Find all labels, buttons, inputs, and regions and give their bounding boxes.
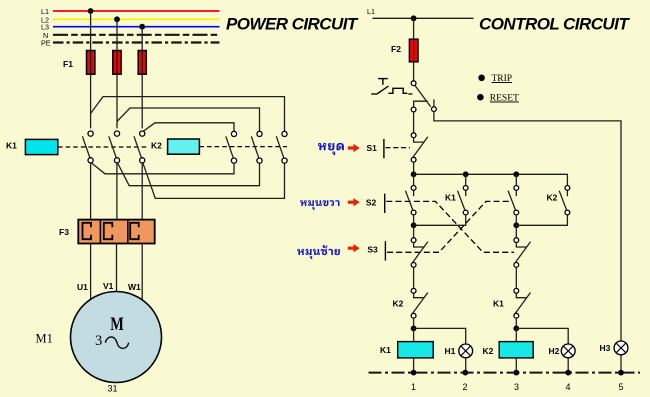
wire L1 to fuse F2 xyxy=(413,18,415,81)
svg-text:L1: L1 xyxy=(367,7,375,16)
contactor K1 coil xyxy=(25,139,57,154)
contactor K2 NC interlock contact xyxy=(411,288,428,318)
wire H1 to N xyxy=(465,358,467,373)
overload F3 heater 2 xyxy=(104,223,113,239)
terminal node 4 xyxy=(565,370,571,376)
linkage S1 dashed xyxy=(386,147,411,149)
svg-text:S1: S1 xyxy=(367,143,378,153)
pushbutton S2 NO contact xyxy=(405,186,416,215)
svg-text:K1: K1 xyxy=(6,141,17,151)
node rail junction 3 xyxy=(513,171,519,177)
wire L2 drop to fuse xyxy=(116,19,118,128)
wire K2 NC to coil junction xyxy=(413,318,415,328)
fuse F2 xyxy=(409,39,418,62)
wire junction to K1 coil xyxy=(413,328,415,341)
wire rail to K1 aux xyxy=(465,174,467,185)
svg-text:1: 1 xyxy=(411,382,416,392)
contactor K1 main contact 1 xyxy=(82,131,93,163)
svg-text:PE: PE xyxy=(41,38,51,47)
linkage K1 dashed xyxy=(58,146,149,148)
node tap L1 xyxy=(88,8,94,14)
terminal node 2 xyxy=(462,370,468,376)
node K1 coil junction xyxy=(411,326,417,332)
wire to lamp H1 xyxy=(414,328,466,343)
pushbutton S2 NC contact (K2 branch) xyxy=(514,238,531,268)
svg-text:F3: F3 xyxy=(59,227,69,237)
svg-text:K1: K1 xyxy=(445,193,456,203)
wire control rail xyxy=(414,174,568,185)
node K1 branch junction xyxy=(411,222,417,228)
svg-text:K1: K1 xyxy=(380,345,391,355)
wire K2 aux join xyxy=(516,215,567,225)
label stop (Thai) xyxy=(318,143,344,155)
svg-text:K1: K1 xyxy=(493,299,504,309)
svg-text:K2: K2 xyxy=(547,193,558,203)
overload relay F3 body xyxy=(78,220,154,244)
node K2 branch junction xyxy=(513,222,519,228)
contactor K1 NC interlock contact xyxy=(514,288,531,318)
node tap L2 xyxy=(114,16,120,22)
wire through F2 xyxy=(413,39,415,62)
wire K1 coil to N xyxy=(413,358,415,373)
contactor K2 main contact 3 xyxy=(276,131,287,163)
node K2 coil junction xyxy=(513,326,519,332)
wire H3 to N xyxy=(620,355,622,373)
wire phase1 branch to K2 contact 3 xyxy=(91,97,285,132)
legend TRIP bullet xyxy=(478,75,485,82)
bus L3 xyxy=(53,26,220,28)
lamp H1 xyxy=(459,344,473,358)
node tap L3 xyxy=(139,24,145,30)
wire S2 NC to K1 NC xyxy=(515,267,517,288)
wire phase2 contacts to F3 xyxy=(116,163,118,220)
lamp H3 xyxy=(614,341,628,355)
overload F3 heater 1 xyxy=(83,223,92,239)
wire through F1 poles xyxy=(91,51,143,75)
wire K1 NC to coil junction xyxy=(515,318,517,328)
wire S3 NC to K2 NC xyxy=(413,267,415,288)
overload trip contact F3 xyxy=(411,81,436,112)
wire K2 coil to N xyxy=(515,358,517,373)
arrow turn left xyxy=(348,244,360,252)
fuse F1 pole 2 xyxy=(113,51,121,75)
node rail junction 1 xyxy=(411,171,417,177)
pushbutton S2 actuator xyxy=(384,194,386,213)
svg-text:CONTROL CIRCUIT: CONTROL CIRCUIT xyxy=(479,15,630,34)
wire K2 contact2 output join xyxy=(118,163,260,186)
bus N xyxy=(53,34,220,36)
svg-text:S3: S3 xyxy=(367,245,378,255)
motor sine symbol xyxy=(105,337,128,349)
contactor K1 main contact 2 xyxy=(109,131,120,163)
pushbutton S1 actuator xyxy=(383,139,385,158)
svg-text:S2: S2 xyxy=(366,198,377,208)
svg-text:V1: V1 xyxy=(103,281,114,291)
bus N control xyxy=(369,372,641,374)
wire trip to S1 xyxy=(413,112,415,133)
svg-text:5: 5 xyxy=(619,382,624,392)
svg-text:4: 4 xyxy=(566,382,571,392)
wire rail to S3 contact xyxy=(515,174,517,185)
svg-text:M1: M1 xyxy=(36,332,53,346)
svg-text:M: M xyxy=(110,314,124,335)
wire H2 to N xyxy=(567,358,569,373)
wire S1 to rail xyxy=(413,162,415,174)
svg-text:K2: K2 xyxy=(151,141,162,151)
wire phase1 contacts to F3 xyxy=(90,163,92,220)
svg-text:H3: H3 xyxy=(600,343,611,353)
contactor K1 main contact 3 xyxy=(134,131,145,163)
wire S3 to junction xyxy=(515,215,517,225)
wire junction to S3 NC xyxy=(413,225,415,237)
svg-text:F1: F1 xyxy=(63,59,73,69)
wire K2 contact1 output join xyxy=(91,163,234,174)
node L1 junction xyxy=(411,15,417,21)
wire rail to S2 xyxy=(413,174,415,185)
svg-text:W1: W1 xyxy=(128,282,141,292)
wire trip NO to lamp H3 xyxy=(434,112,621,341)
svg-text:K2: K2 xyxy=(393,299,404,309)
wire phase3 contacts to F3 xyxy=(141,163,143,220)
pushbutton S3 NC contact (K1 branch) xyxy=(411,238,428,268)
svg-text:H1: H1 xyxy=(445,346,456,356)
wire L1 control top xyxy=(373,17,474,19)
svg-text:U1: U1 xyxy=(77,282,88,292)
wire phase2 branch to K2 contact 2 xyxy=(117,108,260,131)
wire junction to S2 NC xyxy=(515,225,517,237)
wire F3 to motor V1 xyxy=(116,244,118,293)
terminal node 1 xyxy=(411,370,417,376)
pushbutton S3 NO contact xyxy=(508,186,519,215)
wire K2 contact3 output join xyxy=(143,163,285,199)
wire to lamp H2 xyxy=(516,328,568,343)
coil K2 xyxy=(499,342,533,358)
overload trip mechanism symbol xyxy=(371,79,412,95)
node rail junction 2 xyxy=(463,171,469,177)
bus L2 xyxy=(53,18,220,20)
terminal node 5 xyxy=(618,370,624,376)
wire L3 drop to fuse xyxy=(141,27,143,129)
linkage K2 dashed xyxy=(199,146,287,148)
fuse F1 pole 3 xyxy=(138,51,146,75)
lamp H2 xyxy=(561,344,575,358)
terminal node 3 xyxy=(513,370,519,376)
linkage S3 dashed xyxy=(387,201,510,252)
linkage S2 dashed xyxy=(386,201,514,252)
pushbutton S3 actuator xyxy=(384,241,386,260)
wire F3 to motor W1 xyxy=(141,244,143,301)
label stop-turn-right (Thai) xyxy=(300,200,339,210)
label stop-turn-left (Thai) xyxy=(297,245,340,259)
svg-text:K2: K2 xyxy=(483,346,494,356)
svg-text:H2: H2 xyxy=(549,346,560,356)
contactor K2 aux NO contact xyxy=(559,186,570,215)
svg-text:3: 3 xyxy=(514,382,519,392)
wire S2 to junction xyxy=(413,215,415,225)
svg-text:F2: F2 xyxy=(391,44,401,54)
legend RESET bullet xyxy=(477,94,484,101)
contactor K2 main contact 2 xyxy=(251,131,262,163)
pushbutton S1 NC contact xyxy=(411,133,428,162)
contactor K2 coil xyxy=(168,139,200,154)
contactor K1 aux NO contact xyxy=(458,186,469,215)
bus L1 xyxy=(53,10,220,12)
arrow turn right xyxy=(348,198,360,206)
wire phase3 branch to K2 contact 1 xyxy=(142,123,234,132)
wire K1 aux join xyxy=(414,215,466,225)
coil K1 xyxy=(398,342,434,358)
svg-text:TRIP: TRIP xyxy=(492,74,513,84)
svg-text:RESET: RESET xyxy=(490,94,519,104)
bus PE xyxy=(53,41,220,43)
wire junction to K2 coil xyxy=(515,328,517,341)
svg-text:2: 2 xyxy=(463,382,468,392)
svg-text:31: 31 xyxy=(108,384,118,394)
fuse F1 pole 1 xyxy=(87,51,95,75)
overload F3 heater 3 xyxy=(130,223,139,239)
wire F3 to motor U1 xyxy=(90,244,92,300)
wire L1 drop to fuse xyxy=(90,11,92,128)
arrow stop xyxy=(348,144,360,152)
contactor K2 main contact 1 xyxy=(226,131,237,163)
motor M1 xyxy=(71,292,162,383)
svg-text:3: 3 xyxy=(95,333,102,349)
svg-text:POWER CIRCUIT: POWER CIRCUIT xyxy=(226,15,359,34)
